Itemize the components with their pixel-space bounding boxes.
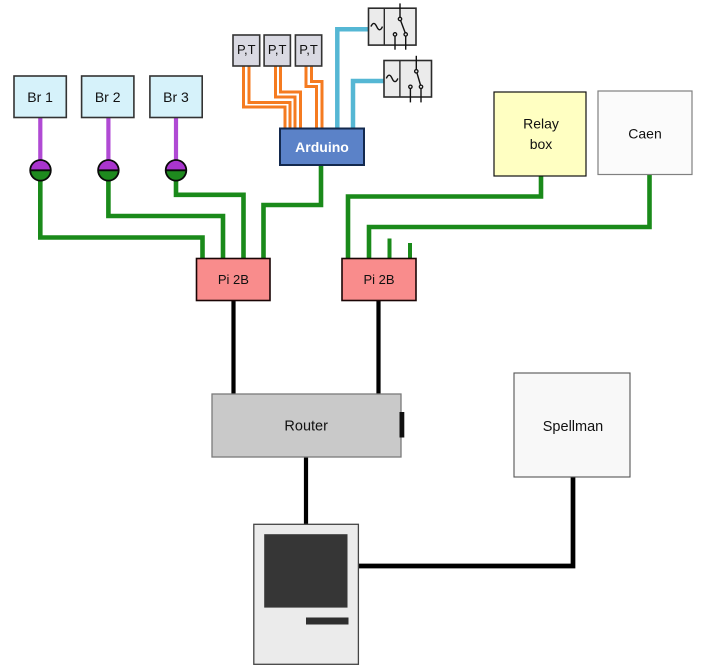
sensor ball 3 [166,160,187,181]
wire orange P,T2 a [276,66,296,129]
AC switch box 2 [384,56,432,103]
wire purple Br1 [38,118,42,162]
box Pi 2B #1 [197,259,271,301]
wire green Arduino to Pi2B#1 [264,165,322,259]
wire purple Br3 [174,118,178,162]
svg-text:P,T: P,T [299,42,318,57]
svg-text:P,T: P,T [237,42,256,57]
svg-text:Br 1: Br 1 [27,89,53,105]
wire green stub1 Pi2B#2 [388,239,392,259]
wire green sensor2 to Pi2B#1 [108,180,223,259]
wire green sensor1 to Pi2B#1 [40,180,202,259]
svg-text:Spellman: Spellman [543,419,603,435]
svg-text:P,T: P,T [268,42,287,57]
wire orange P,T2 b [281,66,301,129]
wire green stub2 Pi2B#2 [408,243,412,259]
wire cyan Arduino to AC switch 2 [353,81,384,129]
computer screen [264,534,347,607]
wire black Pi2B#1 to Router [231,301,235,395]
svg-text:Arduino: Arduino [295,139,349,155]
box Pi 2B #2 [342,259,416,301]
svg-text:Br 3: Br 3 [163,89,189,105]
wire black Pi2B#2 to Router [376,301,380,395]
svg-text:Router: Router [284,419,328,435]
computer slot [306,618,349,625]
box Arduino U1 [280,129,364,166]
svg-text:Relay: Relay [523,116,559,132]
box Router [212,394,401,457]
computer body [254,524,359,664]
box Br 2 [82,76,134,118]
wire black Router to computer [304,457,308,524]
wire orange P,T3 a [306,66,317,129]
svg-text:Pi 2B: Pi 2B [363,272,394,287]
box Relay box [494,92,586,176]
wire cyan Arduino to AC switch 1 [337,29,368,128]
AC switch box 1 [369,3,417,49]
wire purple Br2 [106,118,110,162]
svg-text:box: box [530,136,553,152]
Router right port tab [400,412,405,438]
sensor ball 2 [98,160,119,181]
wire orange P,T1 a [244,66,286,129]
wire black Spellman to computer [357,477,574,566]
wire green Caen to Pi2B#2 [369,175,650,259]
box P,T 2 [264,35,290,66]
box P,T 3 [295,35,321,66]
box P,T 1 [233,35,260,66]
svg-text:Caen: Caen [628,126,661,142]
box Caen [598,91,692,175]
wire orange P,T1 b [249,66,290,129]
wire green sensor3 to Pi2B#1 [176,180,244,259]
box Br 3 [150,76,202,118]
box Spellman [514,373,630,477]
wire green Relay box to Pi2B#2 [348,176,541,259]
box Br 1 [14,76,66,118]
wire orange P,T3 b [312,66,323,129]
svg-text:Pi 2B: Pi 2B [218,272,249,287]
sensor ball 1 [30,160,51,181]
svg-text:Br 2: Br 2 [95,89,121,105]
